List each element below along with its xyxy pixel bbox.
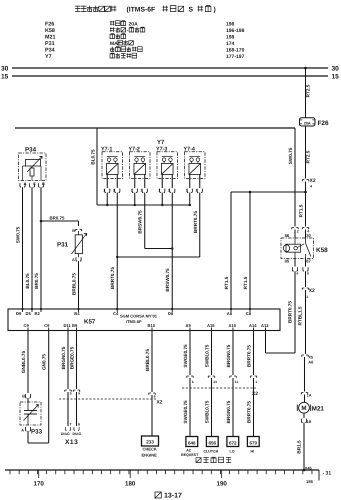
wire BRSW0.75: injector Y7-3 control to ECM pin D8 bbox=[165, 193, 172, 309]
svg-text:BRRT0.75: BRRT0.75 bbox=[246, 401, 251, 423]
wire: Y7-2 pin 2 (control) output bbox=[141, 174, 148, 192]
svg-text:BRGE0.75: BRGE0.75 bbox=[69, 346, 74, 369]
svg-text:BR1.5: BR1.5 bbox=[297, 440, 302, 454]
ECM pin A12 (bottom) bbox=[261, 323, 269, 331]
svg-text:11: 11 bbox=[235, 380, 239, 384]
svg-text:D11: D11 bbox=[64, 323, 72, 328]
svg-text:C8: C8 bbox=[246, 311, 252, 316]
svg-text:B2: B2 bbox=[35, 311, 41, 316]
ground point X45 on ground rail bbox=[303, 465, 314, 484]
svg-text:SW0.75: SW0.75 bbox=[288, 147, 293, 164]
svg-text:D9: D9 bbox=[16, 311, 22, 316]
svg-text:1: 1 bbox=[103, 189, 105, 193]
wire BRBL0.75: P31 pin A to ECM pin B4 bbox=[71, 261, 78, 309]
svg-text:X2: X2 bbox=[157, 400, 163, 406]
svg-text:BRRT0.75: BRRT0.75 bbox=[193, 211, 198, 233]
track mark 170 bbox=[34, 470, 45, 488]
svg-text:198: 198 bbox=[226, 22, 235, 28]
svg-text:B10: B10 bbox=[148, 323, 156, 328]
K58 relay coil bbox=[283, 238, 300, 259]
svg-text:M21: M21 bbox=[312, 405, 325, 412]
wire BRRT0.75: ECM pin A14 toward A/C system bbox=[246, 331, 257, 438]
P33 pin A terminal bbox=[21, 427, 30, 433]
node: junction on battery feed bbox=[249, 191, 252, 194]
svg-text:30: 30 bbox=[332, 66, 340, 73]
svg-text:K58: K58 bbox=[45, 28, 55, 34]
fuel pump M21 pin 1B terminal bbox=[301, 413, 311, 424]
wire BRRT0.75: injector Y7-1 control to ECM pin C4 bbox=[110, 193, 117, 309]
wire GNBL0.75: ECM pin C9 to knock sensor P33 pin B bbox=[21, 331, 28, 394]
svg-text:7: 7 bbox=[70, 423, 72, 427]
wire SWGE0.75: ECM pin A9 toward A/C system bbox=[183, 331, 194, 438]
ECM pin D9 (top) bbox=[16, 308, 24, 316]
svg-text:BRBL0.75: BRBL0.75 bbox=[71, 273, 76, 295]
ECM pin A14 (bottom) bbox=[249, 323, 257, 331]
svg-text:2: 2 bbox=[141, 189, 143, 193]
figure caption 图13-17 bbox=[155, 492, 182, 500]
node: junction of F26 feed on bus 30 bbox=[304, 67, 307, 70]
wire RT1.5 down to relay K58 pin 30 bbox=[298, 192, 309, 238]
svg-text:1: 1 bbox=[131, 189, 133, 193]
ECM pin C9 (bottom) bbox=[44, 323, 50, 331]
svg-text:M: M bbox=[301, 405, 306, 412]
svg-text:1A: 1A bbox=[307, 393, 312, 397]
svg-text:9: 9 bbox=[78, 392, 80, 396]
svg-text:5: 5 bbox=[70, 392, 72, 396]
svg-text:A10: A10 bbox=[229, 323, 237, 328]
ECM pin C4 (top) bbox=[113, 308, 119, 316]
node: distribution junction below F26 bbox=[304, 191, 307, 194]
wire BR1.5: M21 to ground X45 bbox=[297, 423, 304, 470]
harness connector X2 boundary (dashed) left section bbox=[59, 399, 163, 406]
svg-text:6: 6 bbox=[154, 395, 156, 399]
svg-text:A8: A8 bbox=[227, 311, 233, 316]
svg-text:BRSW0.75: BRSW0.75 bbox=[165, 268, 170, 292]
injector Y7-1 (fuel injection valve) bbox=[101, 146, 123, 178]
svg-text:15: 15 bbox=[332, 74, 340, 81]
svg-text:RT1.5: RT1.5 bbox=[224, 276, 229, 289]
svg-text:P34: P34 bbox=[25, 146, 37, 153]
svg-text:13: 13 bbox=[213, 380, 217, 384]
svg-text:20A: 20A bbox=[304, 121, 311, 125]
legend table: component designators, descriptions, current tracks bbox=[45, 21, 245, 60]
P33 pin B terminal bbox=[22, 394, 30, 402]
wire BRGN0.75: ECM pin D11 to diagnostic connector X13 bbox=[61, 331, 72, 427]
svg-text:RT2.5: RT2.5 bbox=[305, 150, 310, 163]
svg-text:196-198: 196-198 bbox=[226, 28, 245, 34]
K58 pin 85 terminal bbox=[292, 259, 298, 276]
svg-text:2: 2 bbox=[168, 189, 170, 193]
wire BRSW0.75: injector Y7-2 control joining Y7-3 bbox=[138, 193, 173, 249]
svg-text:8: 8 bbox=[307, 272, 309, 276]
svg-text:Y7: Y7 bbox=[45, 54, 52, 60]
svg-text:RT1.5: RT1.5 bbox=[298, 204, 303, 217]
svg-text:198: 198 bbox=[306, 479, 313, 484]
svg-text:13-17: 13-17 bbox=[164, 493, 182, 500]
svg-text:P33: P33 bbox=[31, 429, 43, 436]
svg-text:B: B bbox=[22, 395, 25, 399]
svg-text:GNBL0.75: GNBL0.75 bbox=[21, 350, 26, 373]
svg-text:A9: A9 bbox=[186, 323, 192, 328]
svg-text:ITMS-6F: ITMS-6F bbox=[126, 319, 142, 324]
fuel pump motor M21 bbox=[297, 402, 324, 413]
node: Y7-3 supply junction on common bus bbox=[161, 204, 163, 206]
svg-text:C4: C4 bbox=[113, 311, 119, 316]
ground rail 31 with current-track ruler bbox=[5, 469, 319, 471]
throttle potentiometer P34 bbox=[19, 146, 47, 180]
svg-text:679: 679 bbox=[250, 440, 258, 445]
ECM pin A15 (bottom) bbox=[207, 323, 215, 331]
track mark 190 bbox=[217, 470, 228, 488]
ECM pin D8 (top) bbox=[168, 308, 174, 316]
svg-text:1: 1 bbox=[158, 189, 160, 193]
wire BRRT0.75: injector Y7-4 control joining Y7-1 bbox=[117, 193, 200, 257]
svg-text:SWBL0.75: SWBL0.75 bbox=[204, 400, 209, 423]
svg-text:GN0.75: GN0.75 bbox=[42, 354, 47, 370]
fuel pump M21 pin 1A terminal bbox=[301, 393, 312, 403]
svg-text:6: 6 bbox=[297, 272, 299, 276]
svg-text:P34: P34 bbox=[45, 48, 55, 54]
svg-text:BR0.75: BR0.75 bbox=[50, 216, 65, 221]
wire BR0.75 branch to MAT sensor P31 bbox=[41, 216, 79, 227]
wire GN0.75: ECM pin C9 to knock sensor return bbox=[42, 331, 49, 444]
svg-text:198: 198 bbox=[226, 35, 235, 41]
svg-text:Y7-4: Y7-4 bbox=[184, 146, 195, 152]
svg-text:Y7-3: Y7-3 bbox=[156, 146, 167, 152]
svg-text:30: 30 bbox=[306, 233, 311, 238]
title: 发动机控制模块 (ITMS-6F 中国款 S 轿车) bbox=[75, 6, 216, 14]
svg-text:BRGN0.75: BRGN0.75 bbox=[61, 346, 66, 369]
svg-text:X2: X2 bbox=[252, 391, 258, 397]
wire: Y7-3 pin 2 (control) output bbox=[168, 174, 175, 192]
svg-text:Y7-1: Y7-1 bbox=[101, 146, 112, 152]
ECM pin D5 (top) bbox=[26, 308, 34, 316]
ECM pin B4 (top) bbox=[74, 308, 80, 316]
svg-text:P31: P31 bbox=[45, 41, 55, 47]
svg-text:DIAG: DIAG bbox=[61, 432, 70, 436]
svg-text:RTBL1.5: RTBL1.5 bbox=[298, 306, 303, 325]
svg-text:2: 2 bbox=[196, 189, 198, 193]
wire: switched supply line from main relay (off-page) to injectors and K58 coil bbox=[15, 128, 299, 238]
svg-text:RT1.5: RT1.5 bbox=[243, 276, 248, 289]
connector X5 pin A6 on pump feed bbox=[302, 354, 314, 391]
reference 648: A/C request signal bbox=[181, 437, 199, 458]
svg-text:BR0.75: BR0.75 bbox=[34, 273, 39, 289]
P34 pin C terminal bbox=[29, 182, 36, 187]
knock sensor P33 bbox=[20, 402, 43, 436]
svg-text:REQUEST: REQUEST bbox=[181, 453, 199, 457]
svg-text:C9: C9 bbox=[24, 323, 30, 328]
wire: Y7-1 pin 2 (control) output bbox=[113, 174, 120, 192]
svg-text:X2: X2 bbox=[309, 288, 315, 294]
svg-text:RT2.5: RT2.5 bbox=[305, 84, 310, 97]
svg-text:Y7-2: Y7-2 bbox=[129, 146, 140, 152]
wire BL0.75 from supply line to injector common bus bbox=[90, 128, 189, 205]
svg-text:C9: C9 bbox=[44, 323, 50, 328]
svg-text:HI: HI bbox=[251, 450, 255, 454]
bus line 15 (ignition +) bbox=[1, 74, 339, 81]
svg-text:M21: M21 bbox=[45, 35, 56, 41]
svg-text:F26: F26 bbox=[45, 22, 54, 28]
svg-text:6: 6 bbox=[192, 380, 194, 384]
ruler tick marks bbox=[10, 470, 312, 474]
injector Y7-3 (fuel injection valve) bbox=[156, 146, 178, 178]
svg-text:B9: B9 bbox=[72, 323, 78, 328]
wire BRBL0.75: ECM pin B10 to check engine lamp circuit bbox=[145, 331, 156, 437]
svg-text:1: 1 bbox=[306, 295, 308, 299]
ECM pin B10 (bottom) bbox=[148, 323, 156, 331]
svg-text:K58: K58 bbox=[316, 247, 328, 254]
svg-text:177-197: 177-197 bbox=[226, 54, 245, 60]
wire: Y7-2 pin 1 (supply) to injector common bus bbox=[131, 174, 138, 205]
svg-text:30: 30 bbox=[1, 66, 9, 73]
svg-text:): ) bbox=[214, 7, 216, 14]
wire BRGE0.75: ECM pin B9 to diagnostic connector X13 bbox=[69, 331, 80, 427]
svg-text:4: 4 bbox=[310, 185, 312, 189]
injector Y7-2 (fuel injection valve) bbox=[129, 146, 151, 178]
svg-text:CHECK: CHECK bbox=[143, 447, 157, 452]
svg-text:K57: K57 bbox=[84, 319, 96, 326]
connector X2 pin 4 on fuel-feed wire bbox=[302, 178, 316, 192]
svg-text:LO: LO bbox=[230, 450, 235, 454]
ECM pin B2 (top) bbox=[35, 308, 43, 316]
ECM pin C9 (bottom) bbox=[24, 323, 30, 331]
engine control module K57 (SGM CORSA MY'01 ITMS-6F) bbox=[8, 309, 280, 331]
svg-text:87: 87 bbox=[306, 259, 311, 264]
svg-text:BL0.75: BL0.75 bbox=[25, 273, 30, 289]
ECM pin A9 (bottom) bbox=[186, 323, 192, 331]
ECM pin A8 (top) bbox=[227, 308, 233, 316]
svg-text:A15: A15 bbox=[207, 323, 215, 328]
svg-text:BRRT0.75: BRRT0.75 bbox=[246, 345, 251, 367]
svg-text:2: 2 bbox=[297, 230, 299, 234]
svg-text:X2: X2 bbox=[310, 178, 316, 184]
reference 679: fan HI signal bbox=[247, 437, 259, 454]
svg-text:F26: F26 bbox=[318, 120, 329, 127]
harness connector X2 boundary (dashed) right section bbox=[182, 388, 258, 397]
svg-text:190: 190 bbox=[217, 481, 228, 488]
reference 233: check engine lamp circuit bbox=[142, 436, 159, 457]
ECM pin C8 (top) bbox=[246, 308, 252, 316]
svg-text:D5: D5 bbox=[26, 311, 32, 316]
svg-text:D8: D8 bbox=[168, 311, 174, 316]
svg-text:233: 233 bbox=[146, 440, 154, 445]
ECM pin D11 (bottom) bbox=[64, 323, 72, 331]
fuel pump relay K58 bbox=[281, 233, 328, 264]
wire BRGN0.75: ECM pin A10 toward A/C system bbox=[226, 331, 239, 438]
svg-text:BRGN0.75: BRGN0.75 bbox=[226, 400, 231, 423]
svg-text:CLUTCH: CLUTCH bbox=[204, 450, 219, 454]
wire RT1.5 to ECM pin A8 bbox=[224, 192, 231, 309]
wire SWBL0.75: ECM pin A15 toward A/C system bbox=[204, 331, 217, 438]
svg-text:656: 656 bbox=[209, 440, 217, 445]
svg-text:BRGN0.75: BRGN0.75 bbox=[226, 344, 231, 367]
wire: Y7-1 pin 1 (supply) to injector common bus bbox=[103, 174, 110, 205]
MAT sensor P31 (thermistor) bbox=[57, 233, 87, 254]
svg-text:B4: B4 bbox=[74, 311, 80, 316]
svg-text:1: 1 bbox=[186, 189, 188, 193]
wire BRRT0.75: K58 pin 85 to ECM pin A12 bbox=[266, 271, 296, 353]
reference 672: fan LO signal bbox=[227, 437, 239, 454]
wire RT2.5 from bus 30 down to fuse F26 bbox=[305, 68, 310, 118]
svg-text:20A: 20A bbox=[129, 22, 139, 28]
svg-text:A14: A14 bbox=[249, 323, 257, 328]
P34 pin B terminal bbox=[38, 182, 45, 187]
connector X2 pin 1 on pump feed wire bbox=[302, 271, 315, 299]
svg-text:648: 648 bbox=[188, 440, 196, 445]
svg-text:SGM CORSA MY'01: SGM CORSA MY'01 bbox=[120, 314, 158, 319]
svg-text:BRBL0.75: BRBL0.75 bbox=[145, 349, 150, 371]
P34 pin A terminal bbox=[20, 182, 27, 187]
wire: horizontal battery feed to ECM pins A8/C8 bbox=[231, 191, 306, 193]
svg-text:174: 174 bbox=[226, 41, 235, 47]
node: junction BR0.75 branch to P31 bbox=[40, 220, 43, 223]
svg-text:A: A bbox=[21, 429, 24, 433]
svg-text:SWGE0.75: SWGE0.75 bbox=[183, 400, 188, 424]
wire SW0.75: P34 pin A to ECM pin D9 bbox=[15, 187, 22, 309]
wire RT2.5 from fuse F26 to connector X2 bbox=[305, 126, 310, 179]
svg-text:Y7: Y7 bbox=[157, 139, 165, 146]
svg-text:168-170: 168-170 bbox=[226, 48, 245, 54]
svg-text:BL0.75: BL0.75 bbox=[90, 149, 95, 165]
svg-text:BRRT0.75: BRRT0.75 bbox=[288, 301, 293, 323]
svg-text:A6: A6 bbox=[308, 359, 314, 364]
svg-text:BRRT0.75: BRRT0.75 bbox=[110, 267, 115, 289]
svg-text:180: 180 bbox=[125, 481, 136, 488]
svg-text:- 31: - 31 bbox=[323, 471, 332, 477]
svg-text:86: 86 bbox=[285, 233, 290, 238]
svg-text:SWBL0.75: SWBL0.75 bbox=[204, 344, 209, 367]
ECM pin B9 (bottom) bbox=[72, 323, 78, 331]
reference 656: A/C clutch signal bbox=[204, 437, 219, 454]
track mark 180 bbox=[125, 470, 136, 488]
svg-text:MAT: MAT bbox=[110, 41, 120, 47]
node: Y7-2 supply junction on common bus bbox=[134, 204, 136, 206]
diagnostic connector X13 pin 7 bbox=[61, 423, 72, 437]
svg-text:A12: A12 bbox=[261, 323, 269, 328]
svg-text:DIAG: DIAG bbox=[73, 432, 82, 436]
svg-text:AC: AC bbox=[186, 449, 192, 453]
svg-text:S: S bbox=[189, 7, 194, 14]
node: Y7-4 supply junction on common bus bbox=[189, 204, 191, 206]
wire: Y7-4 pin 2 (control) output bbox=[196, 174, 203, 192]
svg-text:6: 6 bbox=[78, 423, 80, 427]
svg-text:85: 85 bbox=[285, 259, 290, 264]
wire RTBL1.5: K58 pin 87 to fuel pump M21 bbox=[298, 290, 306, 354]
wire: Y7-4 pin 1 (supply) to injector common bus bbox=[186, 174, 193, 205]
svg-text:2: 2 bbox=[113, 189, 115, 193]
node: junction Y7-1/Y7-4 control wires bbox=[116, 256, 118, 258]
ground rail continuation to circuit 31 bbox=[319, 470, 331, 481]
svg-text:B: B bbox=[72, 229, 75, 233]
svg-text:A: A bbox=[72, 258, 75, 262]
injector Y7-4 (fuel injection valve) bbox=[184, 146, 206, 178]
svg-text:X13: X13 bbox=[65, 439, 78, 446]
svg-text:170: 170 bbox=[34, 481, 45, 488]
K58 relay switch contact 30-87 bbox=[297, 238, 311, 259]
wire: P33 pin A return loop to ECM pin C9 bbox=[28, 431, 49, 443]
note: 到空调系统 (to A/C system) bbox=[196, 457, 231, 462]
ECM pin A10 (bottom) bbox=[229, 323, 237, 331]
svg-text:1B: 1B bbox=[307, 420, 312, 424]
node: Y7-1 supply junction on common bus bbox=[106, 204, 108, 206]
svg-text:BRSW0.75: BRSW0.75 bbox=[138, 210, 143, 234]
svg-text:672: 672 bbox=[229, 440, 237, 445]
wire RT1.5 to ECM pin C8 bbox=[243, 192, 250, 309]
svg-text:P31: P31 bbox=[57, 242, 69, 249]
svg-text:SW0.75: SW0.75 bbox=[15, 226, 20, 243]
wire BR0.75: P34 pin B to ECM pin B2 bbox=[34, 187, 41, 309]
node: junction Y7-2/Y7-3 control wires bbox=[171, 247, 173, 249]
P31 pin A terminal bbox=[72, 254, 81, 262]
MAT sensor P31 pin B terminal bbox=[72, 229, 82, 235]
svg-text:15: 15 bbox=[1, 74, 9, 81]
svg-text:1: 1 bbox=[255, 380, 257, 384]
wire BL0.75: P34 pin C to ECM pin D5 bbox=[25, 187, 32, 309]
fuse F26 20A bbox=[300, 118, 329, 127]
svg-text:SWGE0.75: SWGE0.75 bbox=[183, 344, 188, 368]
svg-text:ENGINE: ENGINE bbox=[142, 452, 158, 457]
wire: Y7-3 pin 1 (supply) to injector common bus bbox=[158, 174, 165, 205]
diagnostic connector X13 pin 6 bbox=[73, 423, 82, 437]
svg-text:(ITMS-6F: (ITMS-6F bbox=[127, 7, 156, 14]
K58 pin 87 terminal bbox=[303, 259, 309, 276]
bus line 30 (battery +) bbox=[1, 66, 339, 73]
